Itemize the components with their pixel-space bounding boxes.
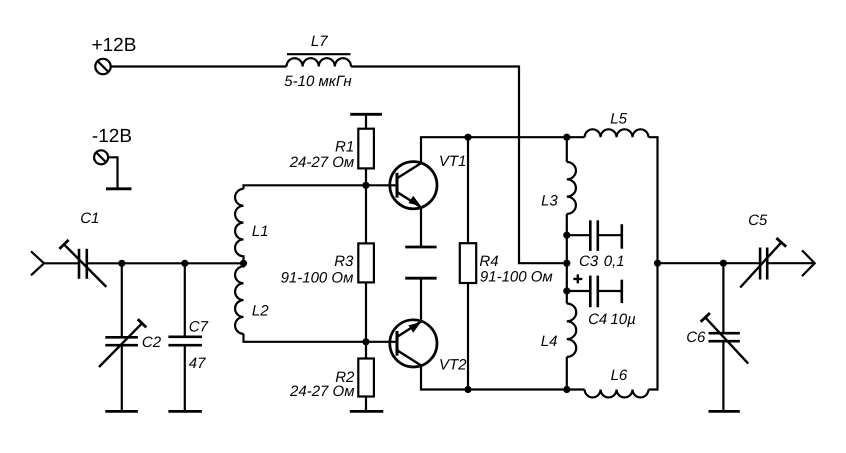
inductor L2 xyxy=(235,263,269,334)
svg-text:24-27 Ом: 24-27 Ом xyxy=(289,154,354,171)
svg-text:91-100 Ом: 91-100 Ом xyxy=(281,270,354,287)
svg-text:C4: C4 xyxy=(588,311,607,328)
ground VT1 emitter xyxy=(405,246,436,249)
capacitor C4 xyxy=(567,274,636,327)
svg-text:R3: R3 xyxy=(334,253,354,270)
svg-text:L4: L4 xyxy=(541,333,558,350)
svg-text:L3: L3 xyxy=(541,193,558,210)
ground R2 xyxy=(350,410,384,413)
svg-text:L5: L5 xyxy=(610,110,627,127)
capacitor C1 xyxy=(59,210,106,287)
ground C6 xyxy=(709,410,740,413)
capacitor C2 xyxy=(99,263,162,411)
svg-text:+12В: +12В xyxy=(92,35,137,56)
capacitor C5 xyxy=(740,212,786,288)
svg-text:L1: L1 xyxy=(252,223,269,240)
svg-text:10µ: 10µ xyxy=(610,311,635,328)
wire VT2 collector to bottom rail xyxy=(421,366,585,390)
inductor L7 xyxy=(284,33,351,90)
node input arrow xyxy=(31,251,44,275)
svg-text:C6: C6 xyxy=(686,329,706,346)
svg-text:C1: C1 xyxy=(80,210,99,227)
resistor R4 xyxy=(460,137,553,389)
transistor VT1 xyxy=(390,153,467,209)
svg-text:L7: L7 xyxy=(311,33,328,50)
svg-text:47: 47 xyxy=(189,355,206,372)
rail bar R1 top xyxy=(350,113,382,116)
terminal -12V xyxy=(92,126,132,164)
svg-text:C2: C2 xyxy=(142,334,162,351)
ground C2 xyxy=(105,410,138,413)
wire output line xyxy=(658,262,815,264)
inductor L6 xyxy=(585,367,649,397)
ground C7 xyxy=(168,410,202,413)
ground -12V xyxy=(106,187,132,190)
resistor R3 xyxy=(281,185,374,341)
capacitor C3 xyxy=(567,220,625,270)
resistor R2 xyxy=(289,342,374,412)
inductor L5 xyxy=(585,110,649,137)
inductor L4 xyxy=(541,304,576,357)
svg-text:C3: C3 xyxy=(579,253,599,270)
transistor VT2 xyxy=(390,320,467,374)
wire VT2 emitter xyxy=(420,278,422,322)
svg-text:24-27 Ом: 24-27 Ом xyxy=(289,383,354,400)
wire VT1 collector to top rail xyxy=(421,137,585,163)
svg-text:91-100 Ом: 91-100 Ом xyxy=(480,269,553,286)
inductor L1 xyxy=(235,189,269,263)
inductor L3 xyxy=(541,162,576,214)
svg-text:VT2: VT2 xyxy=(439,357,467,374)
capacitor C7 xyxy=(168,263,208,411)
wire -12V to common xyxy=(108,157,117,189)
svg-text:R4: R4 xyxy=(479,253,498,270)
node output arrow xyxy=(802,250,815,276)
wire VT1 emitter xyxy=(420,208,422,247)
capacitor C6 xyxy=(686,263,748,411)
resistor R1 xyxy=(289,114,374,185)
svg-text:5-10 мкГн: 5-10 мкГн xyxy=(284,73,351,90)
svg-text:-12В: -12В xyxy=(92,126,132,147)
wire input line xyxy=(43,262,244,264)
node junction dots xyxy=(118,134,727,394)
svg-text:C7: C7 xyxy=(189,319,209,336)
wire L2 to VT2 base xyxy=(244,334,397,342)
svg-text:L2: L2 xyxy=(252,303,269,320)
wire L3 L4 column xyxy=(566,137,568,389)
svg-text:VT1: VT1 xyxy=(439,153,467,170)
terminal +12V xyxy=(92,35,137,74)
svg-text:L6: L6 xyxy=(611,367,628,384)
wire L1 to VT1 base xyxy=(244,185,397,189)
svg-text:C5: C5 xyxy=(748,212,768,229)
wire +12V rail xyxy=(111,67,567,264)
wire output tank right side xyxy=(649,137,658,389)
ground VT2 emitter xyxy=(405,277,436,280)
svg-text:0,1: 0,1 xyxy=(604,253,625,270)
